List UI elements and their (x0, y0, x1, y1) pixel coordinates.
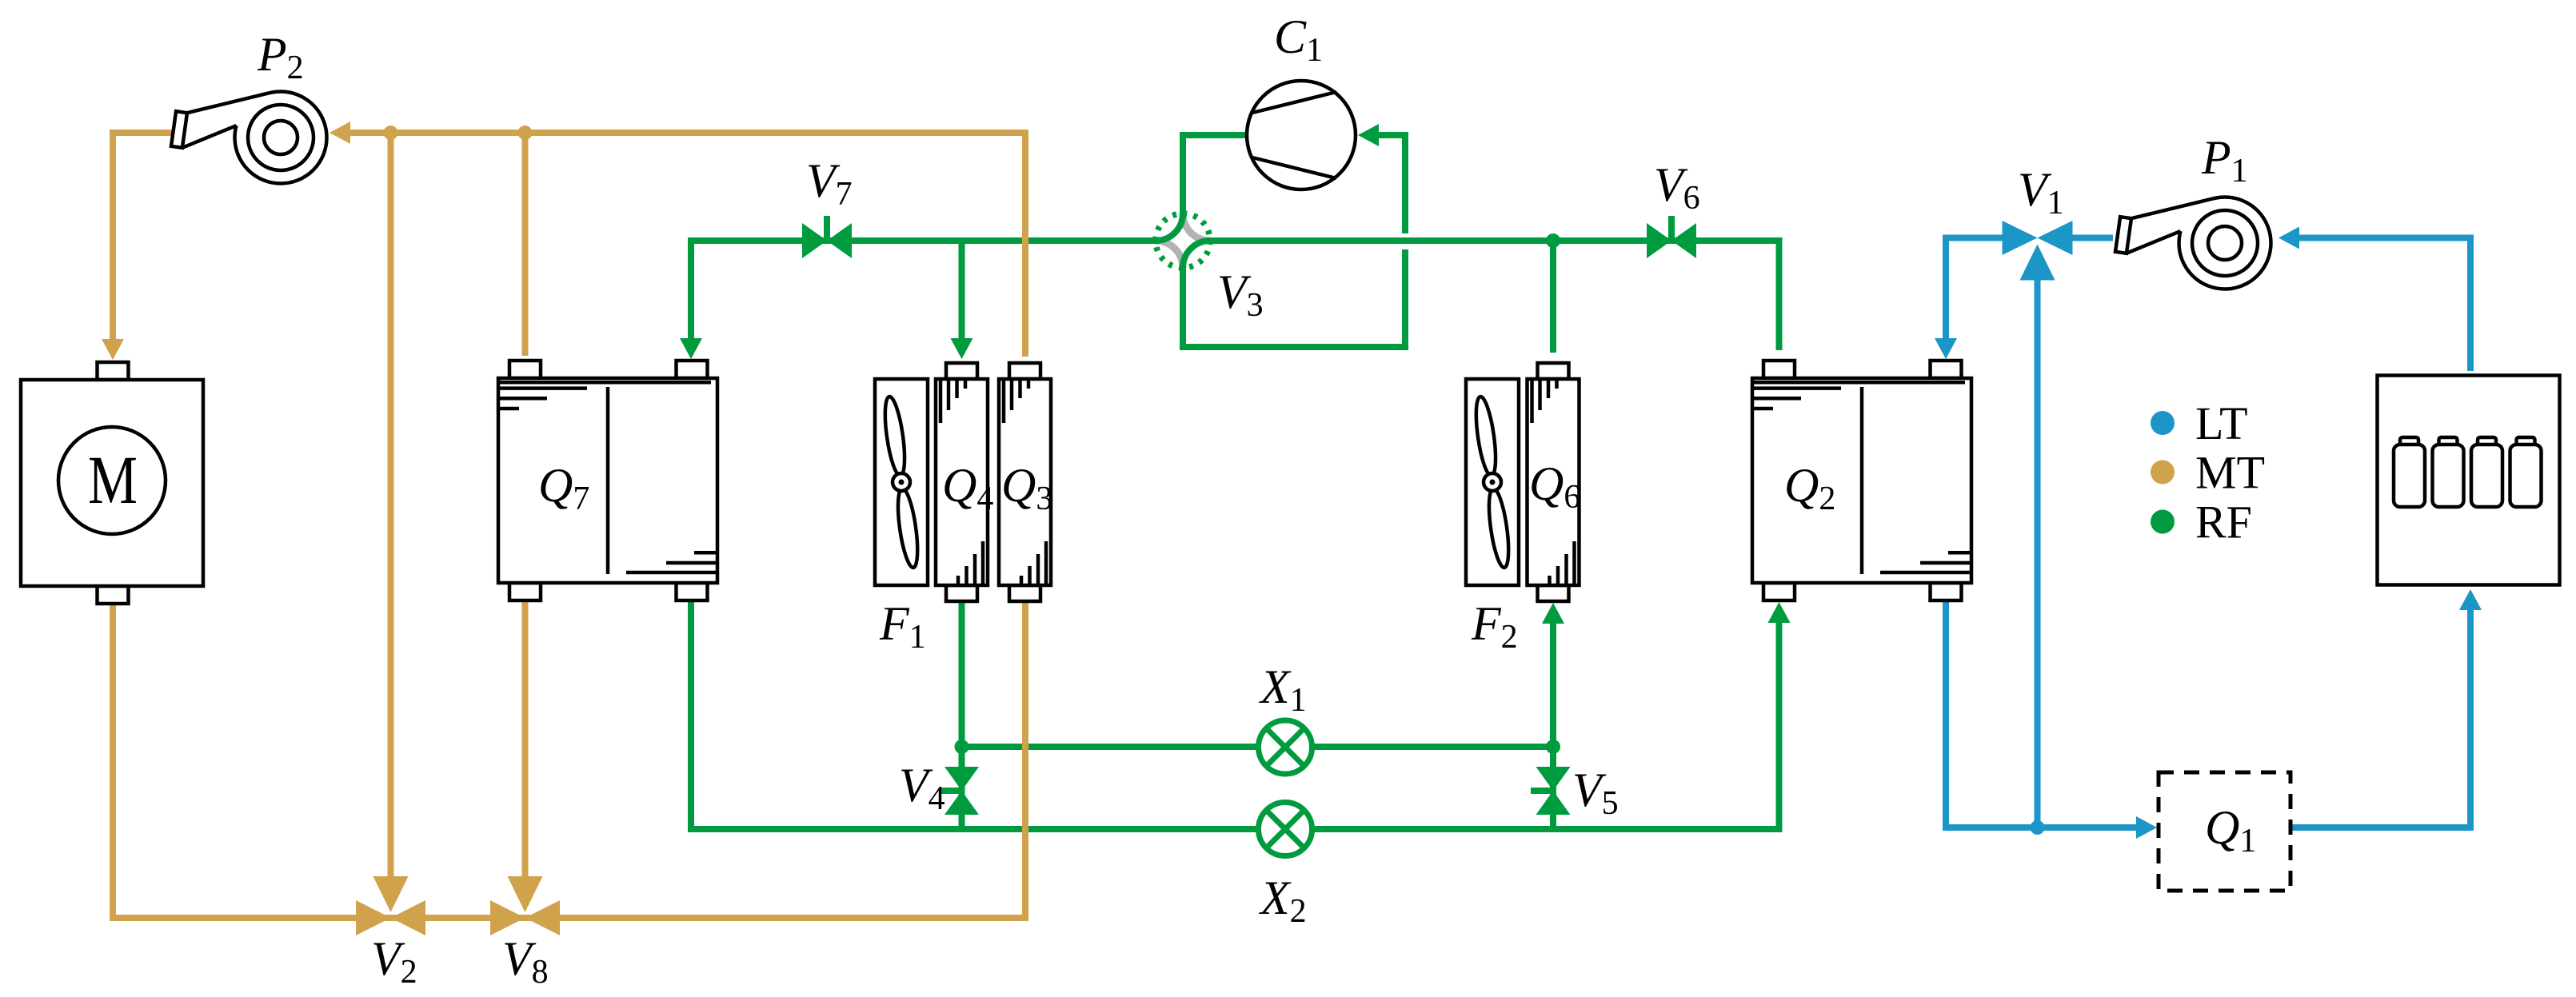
svg-text:LT: LT (2195, 397, 2248, 449)
svg-text:RF: RF (2195, 497, 2252, 548)
svg-text:M: M (88, 441, 138, 518)
svg-text:MT: MT (2195, 447, 2265, 499)
